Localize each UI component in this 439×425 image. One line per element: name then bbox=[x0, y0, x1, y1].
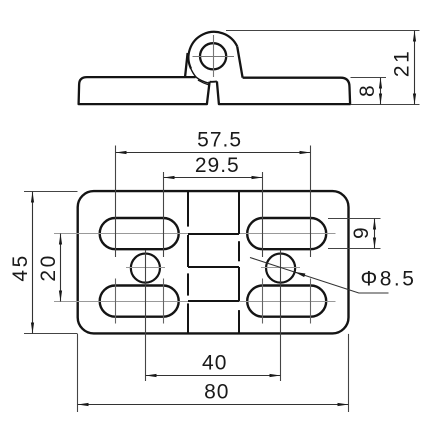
hole circle right bbox=[266, 254, 295, 283]
dimension 8 line bbox=[380, 78, 382, 105]
pin hole circle bbox=[200, 43, 226, 69]
slot row centerlines bbox=[54, 234, 336, 302]
left leaf plate outline bbox=[79, 32, 351, 104]
circle horizontal centerlines bbox=[126, 267, 165, 269]
knuckle notch cap arc bbox=[210, 80, 217, 82]
svg-text:20: 20 bbox=[37, 253, 60, 281]
left knuckle ear slant bbox=[185, 53, 188, 78]
clearance arc inner bbox=[198, 80, 210, 85]
knuckle outer arc bbox=[188, 32, 237, 69]
pin centerlines bbox=[193, 35, 235, 77]
svg-text:45: 45 bbox=[9, 253, 32, 281]
hole circle left bbox=[131, 254, 160, 283]
knuckle right slant bbox=[237, 46, 242, 77]
svg-text:Φ8.5: Φ8.5 bbox=[361, 267, 417, 290]
svg-text:57.5: 57.5 bbox=[197, 128, 242, 151]
extension lines side view bbox=[226, 31, 420, 105]
svg-text:80: 80 bbox=[204, 381, 229, 404]
leader arrowhead bbox=[294, 272, 305, 277]
svg-text:8: 8 bbox=[356, 84, 379, 97]
knuckle barrel lines bbox=[188, 191, 239, 333]
arrows side view bbox=[379, 31, 416, 105]
slot top-left bbox=[100, 218, 179, 249]
slot bottom-left bbox=[100, 286, 179, 317]
slot top-right bbox=[247, 218, 326, 249]
leader line phi8.5 bbox=[250, 258, 389, 294]
svg-text:9: 9 bbox=[350, 226, 373, 239]
arrows plan view bbox=[31, 151, 376, 406]
plate outline bbox=[78, 191, 349, 333]
barrel joint edges bbox=[188, 233, 239, 235]
dimension 21 line bbox=[381, 31, 415, 105]
dimension lines plan view bbox=[33, 153, 389, 405]
svg-text:29.5: 29.5 bbox=[195, 154, 240, 177]
svg-text:40: 40 bbox=[202, 351, 227, 374]
slot bottom-right bbox=[247, 286, 326, 317]
clearance arc outer bbox=[190, 68, 210, 84]
right leaf plate outline bbox=[217, 78, 350, 104]
extension lines plan view bbox=[24, 146, 381, 413]
svg-text:21: 21 bbox=[391, 49, 414, 77]
